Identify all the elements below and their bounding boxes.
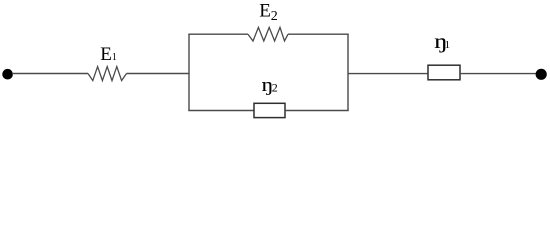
svg-text:2: 2 — [271, 9, 278, 24]
resistor/spring E2 — [248, 27, 288, 41]
label eta1 — [434, 30, 448, 53]
label eta2 — [261, 74, 273, 96]
resistor/spring E1 — [88, 67, 127, 81]
wire bottom branch right — [285, 110, 349, 112]
dashpot box eta1 — [428, 65, 460, 80]
wire — [460, 73, 537, 75]
wire top branch right — [288, 33, 349, 35]
svg-text:E: E — [100, 44, 112, 65]
terminal node left — [2, 69, 13, 80]
svg-text:2: 2 — [272, 81, 278, 95]
wire — [348, 73, 428, 75]
wire — [12, 73, 88, 75]
wire — [127, 73, 190, 75]
node: right vertical of parallel branch — [347, 34, 349, 110]
wire top branch left — [188, 33, 248, 35]
svg-text:E: E — [259, 1, 271, 22]
terminal node right — [536, 69, 547, 80]
svg-text:1: 1 — [445, 39, 451, 51]
node: left vertical of parallel branch — [188, 34, 190, 110]
dashpot box eta2 — [254, 103, 285, 117]
svg-text:1: 1 — [112, 52, 117, 63]
wire bottom branch left — [188, 110, 254, 112]
